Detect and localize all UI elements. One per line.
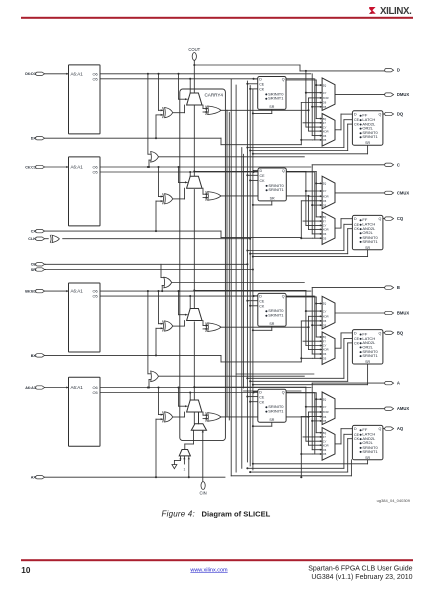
- wire B BX to XOR in2: [156, 327, 163, 329]
- svg-text:SR: SR: [270, 197, 275, 201]
- svg-text:5Q: 5Q: [323, 215, 327, 219]
- wire D FF CE feed: [247, 147, 344, 149]
- wire B XOR net vertical: [308, 316, 310, 327]
- wire D FF CK feed: [250, 150, 348, 152]
- mux MUXCY B: [187, 309, 202, 321]
- svg-text:CE: CE: [354, 118, 360, 122]
- svg-text:5Q: 5Q: [323, 431, 327, 435]
- svg-text:CY: CY: [323, 344, 327, 348]
- mux F7BMUX: [151, 152, 159, 163]
- wire C CY branch: [193, 170, 195, 172]
- svg-text:5Q: 5Q: [323, 182, 327, 186]
- flip-flop C5FF: [258, 168, 286, 201]
- svg-text:D: D: [354, 427, 357, 431]
- wire D DX to XOR in2: [156, 114, 163, 116]
- wire A XORCY inputs: [203, 414, 208, 416]
- svg-text:DQ: DQ: [397, 112, 404, 117]
- svg-text:XOR: XOR: [323, 96, 329, 100]
- wire D XOR net vertical: [308, 98, 310, 110]
- wire C FF SR feed: [253, 256, 368, 258]
- wire B BX line: [45, 354, 221, 356]
- output pin CMUX: [385, 191, 394, 194]
- wire COUT vertical: [193, 60, 195, 93]
- mux MUXCY D: [187, 93, 202, 105]
- wire D XORCY inputs: [203, 108, 208, 110]
- svg-text:CK: CK: [259, 304, 265, 308]
- wire D O5 to mux inputs: [314, 79, 316, 140]
- ground symbol: [174, 460, 180, 462]
- svg-text:O5: O5: [323, 105, 327, 109]
- svg-text:XILINX.: XILINX.: [380, 6, 412, 17]
- gate XOR B carry sum: [165, 321, 173, 331]
- svg-text:D: D: [259, 391, 262, 395]
- svg-text:SR: SR: [269, 418, 274, 422]
- flip-flop/latch CFF: [352, 215, 383, 249]
- wire B O6 to MUXCY select: [178, 291, 180, 315]
- svg-text:SR: SR: [269, 322, 274, 326]
- wire CLK line: [63, 238, 251, 240]
- svg-text:UG384 (v1.1) February 23, 2010: UG384 (v1.1) February 23, 2010: [311, 574, 412, 581]
- wire B 5FF SR: [253, 329, 272, 331]
- svg-text:5Q: 5Q: [323, 335, 327, 339]
- svg-text:Q: Q: [282, 391, 285, 395]
- wire C O6: [100, 166, 311, 168]
- svg-text:Q: Q: [282, 169, 285, 173]
- svg-text:O6: O6: [323, 134, 327, 138]
- header red rule: [21, 17, 413, 19]
- wire D 5FF SR: [253, 112, 272, 114]
- gate XORCY A: [208, 413, 221, 422]
- wire A 5FF SR: [253, 425, 272, 427]
- svg-text:O5: O5: [92, 76, 97, 81]
- svg-text:O6: O6: [323, 199, 327, 203]
- mux precyinit 0/1/AX: [179, 450, 190, 456]
- LUT D (A6:A1): [69, 65, 101, 134]
- svg-text:B: B: [397, 285, 400, 290]
- svg-text:BMUX: BMUX: [397, 311, 410, 316]
- mux CYINIT: [191, 424, 206, 430]
- svg-text:O5: O5: [92, 390, 97, 395]
- wire C O5 to 5FF D: [252, 171, 254, 173]
- svg-text:CY: CY: [323, 91, 327, 95]
- mux COUTMUX: [322, 176, 335, 209]
- gate XOR C carry sum: [165, 194, 173, 204]
- wire D O5 to MUXCY DI: [189, 79, 191, 103]
- Xilinx logo: [369, 6, 412, 17]
- svg-text:SRINIT1: SRINIT1: [268, 409, 284, 414]
- svg-text:CE: CE: [259, 395, 265, 399]
- svg-text:CE: CE: [354, 337, 360, 341]
- svg-text:CIN: CIN: [199, 490, 206, 495]
- svg-text:O6: O6: [323, 101, 327, 105]
- svg-text:ug384_04_040309: ug384_04_040309: [377, 498, 411, 503]
- svg-text:CK: CK: [354, 123, 360, 127]
- svg-text:Q: Q: [379, 217, 382, 221]
- wire C XORCY inputs: [203, 193, 208, 195]
- mux MUXCY C: [187, 176, 202, 188]
- wire B CY branch: [193, 289, 195, 291]
- svg-text:SR: SR: [269, 105, 274, 109]
- svg-text:F7: F7: [323, 219, 327, 223]
- svg-text:D: D: [259, 78, 262, 82]
- gate XOR D carry sum: [165, 108, 173, 118]
- port CIN: [201, 482, 205, 490]
- svg-text:XOR: XOR: [323, 348, 329, 352]
- wire DQ output: [383, 113, 387, 115]
- output pin DQ: [385, 112, 394, 115]
- svg-text:A6:A1: A6:A1: [71, 289, 84, 294]
- wire C CX line: [45, 230, 221, 232]
- svg-text:AMUX: AMUX: [397, 406, 410, 411]
- svg-text:F7: F7: [323, 339, 327, 343]
- mux CFFMUX: [322, 212, 335, 245]
- wire B O6 to output pin: [311, 288, 313, 292]
- wire D 5Q net: [286, 79, 316, 81]
- svg-text:XOR: XOR: [323, 443, 329, 447]
- svg-text:CE: CE: [259, 83, 265, 87]
- LUT C (A6:A1): [69, 157, 101, 226]
- wire F7AMUX inputs: [147, 291, 149, 374]
- wire vertical bus CE: [246, 81, 248, 462]
- svg-text:CK: CK: [354, 341, 360, 345]
- svg-text:Q: Q: [379, 427, 382, 431]
- svg-text:O5: O5: [92, 294, 97, 299]
- wire vertical bus CK: [249, 86, 251, 467]
- wire A FF SR feed: [253, 463, 368, 465]
- wire CYINIT output: [198, 413, 200, 424]
- svg-text:D: D: [397, 68, 400, 73]
- LUT B (A6:A1): [69, 283, 101, 352]
- svg-text:CK: CK: [259, 88, 265, 92]
- output pin CQ: [385, 217, 394, 220]
- svg-text:SR: SR: [365, 246, 370, 250]
- output pin AMUX: [385, 407, 394, 410]
- wire B O5 to MUXCY DI: [189, 296, 191, 318]
- wire B FF SR feed: [253, 384, 368, 386]
- wire A FF CK feed: [250, 471, 348, 473]
- svg-text:Q: Q: [282, 78, 285, 82]
- wire F7BMUX output: [159, 156, 305, 158]
- svg-text:Q: Q: [282, 295, 285, 299]
- svg-text:A: A: [397, 381, 400, 386]
- svg-text:DMUX: DMUX: [397, 92, 410, 97]
- wire SR line: [46, 269, 253, 271]
- wire A FFMUX to FF D: [335, 443, 341, 445]
- wire precyinit inputs: [180, 456, 182, 461]
- svg-text:C: C: [397, 162, 400, 167]
- wire vertical bus SR: [252, 90, 254, 471]
- wire B O5 to 5FF D: [252, 295, 254, 297]
- mux F7AMUX: [151, 371, 159, 382]
- mux AFFMUX: [322, 428, 335, 461]
- svg-text:XOR: XOR: [323, 129, 329, 133]
- svg-text:CMUX: CMUX: [397, 190, 410, 195]
- mux AOUTMUX: [322, 392, 335, 425]
- mux MUXCY A: [187, 400, 202, 412]
- svg-text:D: D: [259, 295, 262, 299]
- svg-text:5Q: 5Q: [323, 117, 327, 121]
- svg-text:CK: CK: [259, 400, 265, 404]
- wire D 5FF CE/CK: [247, 83, 257, 85]
- wire C O6 to mux inputs: [311, 167, 313, 234]
- wire CE line: [46, 263, 248, 265]
- svg-text:Diagram of SLICEL: Diagram of SLICEL: [202, 510, 271, 519]
- flip-flop/latch AFF: [352, 425, 383, 459]
- wire C O6 to XOR in1: [158, 167, 160, 197]
- wire B 5Q net: [286, 296, 316, 298]
- svg-text:O5: O5: [323, 203, 327, 207]
- wire C 5FF SR: [253, 204, 272, 206]
- wire D O6: [100, 73, 311, 75]
- output pin A: [385, 381, 394, 384]
- wire D CY branch: [194, 64, 300, 66]
- wire A mux input stubs: [306, 406, 322, 408]
- wire C XORCY output: [221, 195, 308, 197]
- svg-text:O5: O5: [323, 419, 327, 423]
- svg-text:SR: SR: [365, 360, 370, 364]
- output pin C: [385, 163, 394, 166]
- svg-text:10: 10: [21, 566, 31, 575]
- wire A 5FF CE/CK: [247, 396, 257, 398]
- wire CQ output: [383, 218, 387, 220]
- wire C O5 to MUXCY DI: [189, 172, 191, 186]
- svg-text:O6: O6: [323, 352, 327, 356]
- wire D O5 to 5FF D: [252, 78, 254, 80]
- wire A FF CE feed: [247, 467, 344, 469]
- svg-text:SR: SR: [365, 141, 370, 145]
- svg-text:B6:B1: B6:B1: [25, 290, 36, 294]
- wire D O6 to mux inputs: [311, 74, 313, 136]
- wire A AX line: [45, 476, 225, 478]
- wire A O5 to MUXCY DI: [189, 393, 191, 411]
- svg-text:1: 1: [184, 467, 186, 471]
- wire B FFMUX to FF D: [335, 347, 341, 349]
- wire C FFMUX to FF D: [335, 227, 341, 229]
- svg-text:SRINIT1: SRINIT1: [362, 449, 378, 454]
- svg-text:5Q: 5Q: [323, 397, 327, 401]
- wire C O5: [100, 171, 314, 173]
- svg-text:CY: CY: [323, 309, 327, 313]
- wire C XOR-left output: [173, 198, 185, 200]
- svg-text:O6: O6: [323, 319, 327, 323]
- svg-text:XOR: XOR: [323, 194, 329, 198]
- svg-text:Figure 4:: Figure 4:: [162, 510, 195, 519]
- wire B XORCY inputs: [203, 325, 208, 327]
- gate XORCY B: [208, 323, 221, 332]
- wire F8MUX output: [172, 282, 304, 284]
- svg-text:AQ: AQ: [397, 426, 404, 431]
- svg-text:SRINIT1: SRINIT1: [362, 239, 378, 244]
- wire B LUT input: [45, 290, 69, 292]
- svg-text:CY: CY: [323, 224, 327, 228]
- wire A O6 to mux inputs: [311, 388, 313, 450]
- svg-text:O5: O5: [92, 170, 97, 175]
- wire BMUX output: [335, 312, 386, 314]
- wire BQ output: [383, 332, 387, 334]
- wire F7BMUX inputs: [147, 74, 149, 154]
- svg-text:SRINIT1: SRINIT1: [362, 353, 378, 358]
- svg-text:CARRY4: CARRY4: [204, 93, 223, 98]
- wire D XORCY output: [221, 109, 308, 111]
- svg-text:XOR: XOR: [323, 228, 329, 232]
- svg-text:CE: CE: [354, 223, 360, 227]
- svg-text:SRINIT1: SRINIT1: [268, 313, 284, 318]
- wire C FF CK feed: [250, 253, 348, 255]
- wire AX to AFFMUX: [300, 417, 302, 478]
- wire C O6 to output pin: [311, 165, 313, 167]
- svg-text:5Q: 5Q: [323, 302, 327, 306]
- wire CMUX output: [335, 192, 386, 194]
- wire B XORCY output: [221, 326, 308, 328]
- wire C 5FF CE/CK: [247, 174, 258, 176]
- flip-flop/latch BFF: [352, 330, 383, 364]
- svg-text:CE: CE: [260, 174, 266, 178]
- svg-text:Q: Q: [379, 331, 382, 335]
- wire A O6 to MUXCY select: [178, 388, 180, 407]
- wire B O5: [100, 295, 314, 297]
- svg-text:CY: CY: [323, 405, 327, 409]
- svg-text:A6:A1: A6:A1: [71, 165, 84, 170]
- wire B O6: [100, 290, 311, 292]
- svg-text:CY: CY: [323, 439, 327, 443]
- gate XORCY C: [208, 192, 221, 201]
- svg-text:O5: O5: [323, 452, 327, 456]
- wire D O6 to MUXCY select: [178, 74, 180, 99]
- wire A O6 to output pin: [311, 383, 313, 387]
- wire carry chain verticals: [193, 105, 195, 176]
- svg-text:5Q: 5Q: [323, 83, 327, 87]
- svg-text:www.xilinx.com: www.xilinx.com: [189, 567, 228, 573]
- svg-text:CY: CY: [323, 189, 327, 193]
- wire AQ output: [383, 428, 387, 430]
- svg-text:CE: CE: [259, 299, 265, 303]
- wire A CY branch: [193, 386, 195, 388]
- svg-text:A6:A1: A6:A1: [71, 71, 84, 76]
- wire C FF CE feed: [247, 250, 344, 252]
- wire D XOR-left output: [173, 112, 185, 114]
- wire C O5 to mux inputs: [314, 172, 316, 238]
- svg-text:O5: O5: [323, 236, 327, 240]
- svg-text:O5: O5: [323, 138, 327, 142]
- wire A XORCY output: [221, 416, 308, 418]
- flip-flop B5FF: [258, 293, 286, 326]
- mux DOUTMUX: [322, 78, 335, 111]
- flip-flop A5FF: [258, 389, 286, 422]
- svg-text:A6:A1: A6:A1: [71, 385, 84, 390]
- mux BOUTMUX: [322, 296, 335, 329]
- wire A O6 to XOR in1: [158, 388, 160, 415]
- wire AMUX output: [335, 408, 386, 410]
- svg-text:XOR: XOR: [323, 410, 329, 414]
- wire B O6 to mux inputs: [311, 291, 313, 354]
- svg-text:O5: O5: [323, 357, 327, 361]
- wire A AX to XOR in2: [156, 418, 163, 420]
- mux BFFMUX: [322, 332, 335, 365]
- svg-text:O6: O6: [323, 415, 327, 419]
- wire A XOR-left output: [173, 416, 185, 418]
- wire D mux input stubs: [306, 92, 322, 94]
- wire C 5Q net: [286, 171, 316, 173]
- output pin AQ: [385, 427, 394, 430]
- mux DFFMUX: [322, 114, 335, 147]
- svg-text:CK: CK: [260, 179, 266, 183]
- svg-text:SRINIT1: SRINIT1: [268, 187, 284, 192]
- svg-text:CLK: CLK: [28, 237, 36, 241]
- svg-text:SRINIT1: SRINIT1: [362, 134, 378, 139]
- svg-text:BQ: BQ: [397, 330, 404, 335]
- wire bottom nested routing A section: [231, 475, 351, 477]
- svg-text:D6:D1: D6:D1: [25, 72, 36, 76]
- svg-text:CK: CK: [354, 437, 360, 441]
- svg-text:CY: CY: [323, 125, 327, 129]
- svg-text:O5: O5: [323, 323, 327, 327]
- wire A O5 to mux inputs: [314, 393, 316, 455]
- wire B 5FF CE/CK: [247, 300, 257, 302]
- svg-text:CK: CK: [354, 227, 360, 231]
- svg-text:D: D: [354, 331, 357, 335]
- svg-text:CQ: CQ: [397, 216, 404, 221]
- svg-text:D: D: [354, 113, 357, 117]
- wire C mux input stubs: [306, 190, 322, 192]
- output pin D: [385, 68, 394, 71]
- wire B XOR-left output: [173, 325, 185, 327]
- flip-flop/latch DFF: [352, 111, 383, 145]
- gate XOR A carry sum: [165, 412, 173, 422]
- flip-flop D5FF: [258, 77, 286, 110]
- output pin BQ: [385, 331, 394, 334]
- svg-text:XOR: XOR: [323, 315, 329, 319]
- wire D FFMUX to FF D: [335, 129, 341, 131]
- carry logic CARRY4 box: [180, 89, 226, 441]
- svg-text:Spartan-6 FPGA CLB User Guide: Spartan-6 FPGA CLB User Guide: [308, 566, 412, 573]
- wire D O5: [100, 78, 314, 80]
- wire CYINIT left input: [184, 444, 186, 450]
- svg-text:F7: F7: [323, 121, 327, 125]
- wire C CX to XOR in2: [156, 200, 163, 202]
- wire B FF CE feed: [247, 377, 344, 379]
- wire B FF CK feed: [250, 380, 348, 382]
- svg-text:Q: Q: [379, 113, 382, 117]
- wire A O6: [100, 387, 311, 389]
- svg-text:D: D: [260, 169, 263, 173]
- wire B O6 to XOR in1: [158, 291, 160, 324]
- wire C LUT input: [45, 166, 69, 168]
- wire A LUT input: [45, 387, 69, 389]
- wire D FF SR feed: [253, 153, 368, 155]
- wire F8MUX inputs: [161, 277, 164, 279]
- wire gap B-A routing: [236, 373, 314, 375]
- wire DMUX output: [335, 94, 386, 96]
- wire C XOR net vertical: [308, 195, 310, 197]
- wire A XOR net vertical: [308, 412, 310, 417]
- svg-text:F7: F7: [323, 435, 327, 439]
- clock buffer: [52, 235, 59, 242]
- output pin DMUX: [385, 93, 394, 96]
- wire B O5 to mux inputs: [314, 296, 316, 358]
- wire D DX line: [45, 137, 221, 139]
- svg-text:O6: O6: [323, 448, 327, 452]
- footer red rule: [21, 559, 413, 561]
- wire C O6 to MUXCY select: [178, 167, 180, 182]
- mux F8MUX: [164, 277, 172, 288]
- wire F7AMUX output: [159, 375, 305, 377]
- svg-text:COUT: COUT: [188, 47, 200, 52]
- wire B mux input stubs: [306, 310, 322, 312]
- wire D O6 to XOR in1: [158, 74, 160, 111]
- output pin B: [385, 286, 394, 289]
- wire A 5Q net: [286, 392, 316, 394]
- svg-text:D: D: [354, 217, 357, 221]
